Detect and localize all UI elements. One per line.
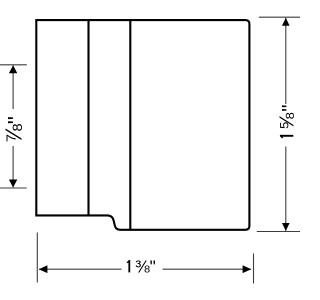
bottom dimension line [39,268,251,270]
right dimension label 1 5/8 inch (rotated) [275,112,298,138]
right dimension label inch mark [278,105,301,112]
svg-text:⅝: ⅝ [275,112,298,130]
bottom dimension label 1 3/8 inch [127,256,156,276]
left dimension label 7/8 inch (rotated) [0,123,26,143]
left dimension line [12,66,14,188]
right dimension line [285,18,287,231]
right dimension ticks [257,17,300,231]
bottom dimension extension lines [37,233,253,284]
left dimension ticks [0,65,27,188]
right dimension arrows [282,18,290,231]
part outline (side profile with stepped foot) [36,20,249,230]
inner vertical line A [87,19,89,215]
inner vertical line B [129,19,131,230]
left dimension label inch mark [3,116,29,124]
svg-text:": " [3,116,29,124]
bottom dimension arrows [39,265,251,273]
svg-text:⅞: ⅞ [0,123,26,143]
left dimension arrows [9,65,17,187]
svg-text:⅜": ⅜" [135,256,156,276]
svg-text:": " [278,105,300,112]
